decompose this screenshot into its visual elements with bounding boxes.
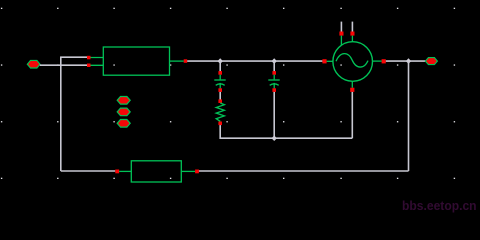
pin V1 left: [322, 59, 326, 63]
pin 3 of U1 (output): [184, 59, 188, 63]
pin V1 right: [382, 59, 386, 63]
stub pins into V1 top: [341, 36, 352, 46]
wire V1 right to port OUT: [386, 60, 426, 62]
resistor block R2: [131, 161, 181, 182]
pin stub of U1 right: [170, 60, 184, 62]
stub V1 bottom: [351, 81, 353, 88]
sine wave inside V1: [336, 54, 368, 67]
floating node marker 2: [117, 108, 130, 116]
stub R2 right: [181, 170, 195, 172]
wire left vertical feedback: [60, 57, 62, 171]
pin R1 top: [218, 99, 222, 103]
node junction C on mid rail: [272, 135, 277, 141]
pin 2 of U1: [87, 64, 91, 68]
pin R2 left: [115, 170, 119, 174]
pin C2 bottom: [272, 88, 276, 92]
pin 1 of U1: [87, 56, 91, 60]
wire V1 top stub 2: [351, 22, 353, 32]
pin V1 bottom: [350, 88, 354, 92]
pin V1 top 1: [339, 32, 343, 36]
capacitor C2: [268, 75, 279, 89]
wire to U1 upper-left pin: [60, 56, 87, 58]
wire junction D down right vertical: [408, 61, 410, 171]
node junction B: [272, 58, 277, 64]
pin C2 top: [272, 71, 276, 75]
stub V1 right: [372, 60, 381, 62]
pin C1 top: [218, 71, 222, 75]
wire V1 bottom to mid rail: [351, 92, 353, 138]
wire C2 bottom to mid rail: [273, 92, 275, 138]
wire bottom rail left: [61, 170, 116, 172]
port OUT: [425, 58, 437, 65]
wire V1 top stub 1: [340, 22, 342, 32]
op-amp block U1: [103, 47, 169, 75]
node junction A: [218, 58, 223, 64]
AC source V1 circle: [333, 42, 373, 82]
node junction D: [406, 58, 411, 64]
pin C1 bottom: [218, 88, 222, 92]
port IN: [27, 60, 40, 68]
wire junction B down to C2: [273, 61, 275, 71]
wire C1 to R1: [219, 92, 221, 100]
floating node marker 3: [117, 120, 130, 128]
resistor R1: [216, 103, 224, 121]
pin stubs of U1 left: [91, 58, 104, 66]
stub V1 left: [327, 60, 333, 62]
pin R1 bottom: [218, 122, 222, 126]
wire from port IN to U1 lower-left pin: [40, 64, 87, 66]
wire top rail U1 to V1: [187, 60, 322, 62]
watermark text: [402, 199, 477, 213]
wire R1 bottom to mid rail: [220, 125, 352, 138]
wire junction A down to C1: [219, 61, 221, 71]
pin R2 right: [195, 170, 199, 174]
wire bottom rail right: [199, 170, 409, 172]
stub R2 left: [119, 170, 131, 172]
floating node marker 1: [117, 97, 130, 105]
capacitor C1: [214, 75, 225, 89]
pin V1 top 2: [350, 32, 354, 36]
